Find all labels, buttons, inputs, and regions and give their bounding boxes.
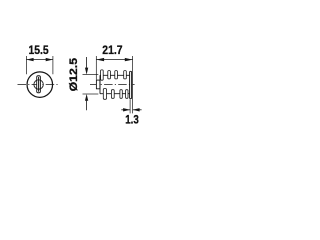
top rib 2 bbox=[108, 71, 111, 79]
front view outer circle (face plate Ø15.5) bbox=[27, 72, 53, 98]
key slit bbox=[38, 77, 39, 92]
dimension 21.7 extension line left bbox=[95, 56, 97, 80]
dimension 21.7 / 1.3 extension line right bbox=[132, 56, 134, 113]
dimension 15.5 extension line left bbox=[25, 56, 27, 74]
dimension Ø12.5 extension line bottom bbox=[83, 93, 99, 95]
side view centerline bbox=[90, 84, 135, 86]
plug circle bbox=[34, 80, 43, 89]
cam tab bbox=[96, 80, 100, 89]
svg-text:15.5: 15.5 bbox=[29, 43, 49, 57]
dimension 15.5 arrow left bbox=[26, 58, 33, 61]
svg-text:Ø12.5: Ø12.5 bbox=[68, 58, 80, 91]
side view body outline bbox=[100, 75, 130, 93]
svg-text:1.3: 1.3 bbox=[125, 112, 139, 126]
dimension 15.5 line bbox=[26, 59, 53, 61]
dimension Ø12.5 extension line top bbox=[83, 74, 99, 76]
keyway slot bbox=[37, 76, 41, 93]
bottom rib 4 bbox=[126, 90, 128, 99]
svg-text:21.7: 21.7 bbox=[102, 43, 122, 57]
dimension Ø12.5 lower line and arrow bbox=[86, 99, 88, 110]
top rib 3 bbox=[115, 71, 118, 79]
flange disc bbox=[130, 71, 132, 98]
bottom rib 3 bbox=[120, 90, 122, 99]
dimension 21.7 arrow left bbox=[96, 58, 104, 61]
dimension 1.3 extension line left bbox=[129, 99, 131, 113]
dimension 1.3 line left with arrow bbox=[121, 109, 130, 111]
dimension 15.5 extension line right bbox=[52, 56, 54, 74]
dimension Ø12.5 upper line and arrow bbox=[86, 57, 88, 69]
front view centerline bbox=[18, 84, 60, 86]
bottom rib 1 (large) bbox=[103, 89, 106, 100]
dimension 15.5 arrow right bbox=[46, 58, 53, 61]
dimension 21.7 line bbox=[96, 59, 132, 61]
dimension 21.7 arrow right bbox=[125, 58, 133, 61]
top rib 4 bbox=[124, 71, 127, 79]
dimension 1.3 line right with arrow bbox=[133, 109, 142, 111]
bottom rib 2 bbox=[111, 90, 114, 99]
top rib 1 bbox=[101, 70, 104, 80]
